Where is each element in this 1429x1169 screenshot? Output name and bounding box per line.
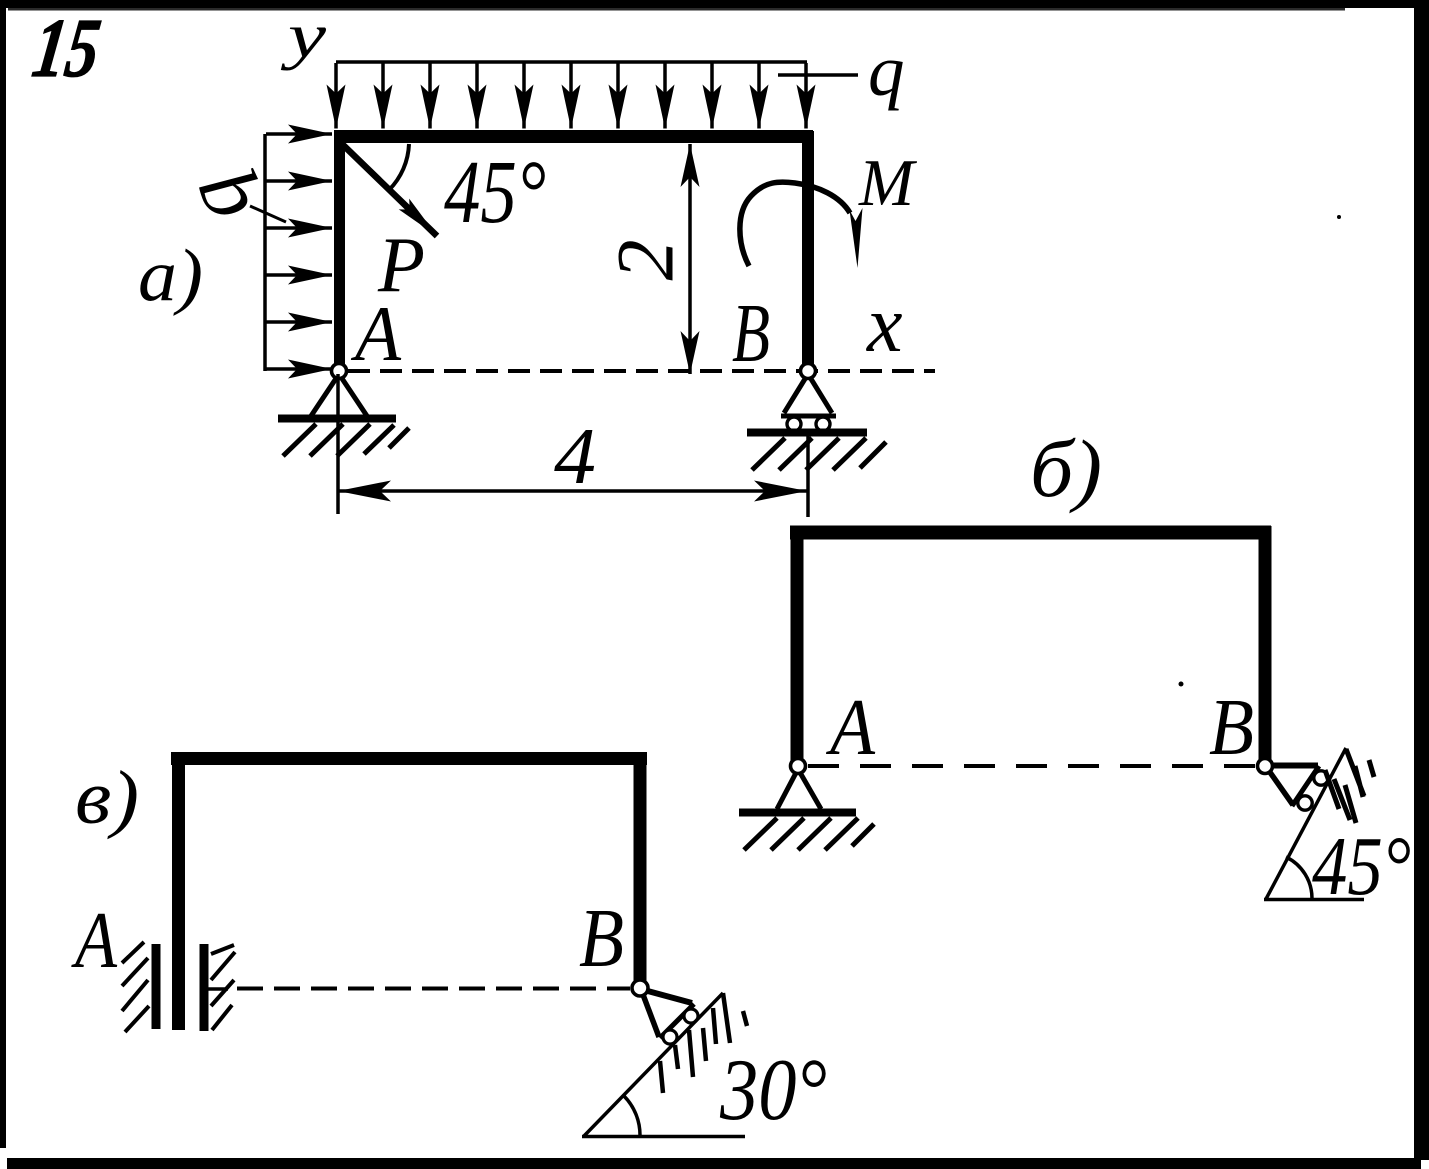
left distributed load boundary — [263, 134, 267, 371]
dimension 2 line — [688, 144, 692, 374]
wall left line at A — [152, 944, 161, 1029]
svg-text:4: 4 — [554, 413, 596, 501]
svg-text:M: M — [858, 146, 917, 220]
support B(b) roller upper — [1314, 771, 1328, 785]
support A pin circle — [332, 364, 347, 379]
frame b right column — [1259, 526, 1272, 766]
support A(b) ground line — [739, 809, 856, 817]
frame a right column — [802, 131, 814, 371]
support B(b) incline surface — [1266, 748, 1346, 899]
frame b beam — [790, 526, 1271, 540]
support B(v) roller upper — [684, 1009, 698, 1023]
support B(v) pin circle — [632, 980, 648, 996]
support B(v) hatch tick — [743, 1011, 747, 1026]
dim4 extension line at A — [336, 374, 340, 514]
page border bottom — [7, 1158, 1421, 1169]
left load arrow 2 — [266, 179, 332, 183]
dashed axis AB figure v — [237, 987, 630, 991]
svg-text:а): а) — [138, 235, 203, 317]
support B pin circle — [801, 364, 816, 379]
left load arrow 6 — [266, 367, 332, 371]
frame v right column — [634, 752, 647, 985]
top load arrow 6 — [569, 63, 573, 129]
wall tick — [206, 987, 228, 991]
support B(b) angle arc — [1286, 857, 1312, 899]
support A pin triangle — [311, 374, 367, 416]
support B(b) bracket top link — [1268, 763, 1318, 769]
svg-text:x: x — [866, 281, 903, 369]
dashed axis AB figure b — [808, 764, 1256, 768]
svg-text:45°: 45° — [444, 143, 546, 242]
top load arrow 3 — [428, 63, 432, 129]
support A(b) pin circle — [791, 759, 806, 774]
support B pin triangle — [784, 374, 832, 413]
frame a beam — [334, 130, 813, 143]
frame b left column — [791, 526, 804, 766]
support B(b) hatch tick — [1369, 760, 1374, 777]
page border top — [0, 0, 1429, 8]
frame v left column — [172, 752, 185, 1030]
wall left hatching — [122, 942, 149, 1032]
support A(b) hatching — [744, 818, 874, 850]
top load arrow 1 — [334, 63, 338, 129]
top load arrow 5 — [522, 63, 526, 129]
support B ground line — [747, 429, 867, 437]
top load arrow 4 — [475, 63, 479, 129]
left load arrow 3 — [266, 226, 332, 230]
support B(v) bracket hypotenuse — [660, 1004, 694, 1038]
support B(v) bracket lower link — [642, 992, 659, 1037]
force P — [340, 142, 437, 236]
top load arrow 10 — [757, 63, 761, 129]
support B(b) bracket lower link — [1267, 768, 1293, 805]
support B(b) incline hatching — [1325, 749, 1364, 823]
wall right line at A — [200, 944, 209, 1031]
support B(b) pin circle — [1258, 759, 1273, 774]
dimension 4 line — [338, 489, 807, 493]
svg-text:B: B — [579, 892, 624, 985]
left load arrow 5 — [266, 320, 332, 324]
left q leader line — [250, 206, 286, 222]
speck 1 — [1337, 215, 1341, 219]
top distributed load boundary — [336, 60, 807, 64]
top load arrow 7 — [616, 63, 620, 129]
support A ground line — [278, 415, 396, 423]
svg-text:A: A — [825, 684, 876, 772]
wall right hatching — [211, 945, 235, 1030]
support B(b) ground base — [1264, 898, 1364, 902]
support B(v) incline surface — [584, 993, 723, 1136]
svg-text:45°: 45° — [1312, 820, 1411, 913]
svg-text:B: B — [1209, 684, 1254, 772]
support B(v) angle arc — [624, 1096, 640, 1136]
speck 2 — [1179, 682, 1184, 687]
support B(v) bracket top link — [644, 990, 692, 1003]
moment M arrowhead — [850, 208, 863, 268]
45 deg arc at corner — [389, 144, 409, 190]
left load arrow 4 — [266, 273, 332, 277]
svg-text:15: 15 — [28, 2, 106, 95]
support B(v) roller lower — [663, 1030, 677, 1044]
support B(b) bracket hypotenuse — [1292, 766, 1319, 806]
svg-text:A: A — [71, 897, 118, 985]
svg-text:30°: 30° — [719, 1042, 827, 1139]
dashed axis AB — [348, 369, 935, 373]
svg-text:2: 2 — [600, 240, 691, 281]
support B(v) ground base — [582, 1135, 745, 1139]
top load arrow 9 — [710, 63, 714, 129]
support A hatching — [283, 424, 409, 456]
moment M arc — [740, 182, 850, 266]
support B(v) incline hatching — [660, 993, 730, 1093]
svg-text:B: B — [732, 287, 770, 380]
frame a left column — [334, 131, 345, 371]
svg-text:q: q — [868, 30, 905, 111]
page border top thin streak — [8, 8, 1345, 11]
support B roller right — [816, 417, 830, 431]
top load arrow 8 — [663, 63, 667, 129]
left load arrow 1 — [266, 132, 332, 136]
top load arrow 2 — [381, 63, 385, 129]
svg-text:A: A — [350, 290, 401, 377]
support B roller bar — [781, 414, 836, 419]
support B(b) roller lower — [1298, 796, 1312, 810]
support B roller left — [787, 417, 801, 431]
support B hatching — [752, 438, 886, 470]
top load arrow 11 — [804, 63, 808, 129]
page border left — [0, 8, 6, 1148]
svg-text:б): б) — [1030, 423, 1102, 514]
support A(b) pin triangle — [777, 769, 821, 809]
svg-text:в): в) — [75, 756, 139, 840]
top load q leader — [778, 73, 858, 77]
frame v beam — [171, 752, 647, 765]
page border right — [1414, 8, 1429, 1160]
dim4 extension line at B — [806, 434, 810, 517]
